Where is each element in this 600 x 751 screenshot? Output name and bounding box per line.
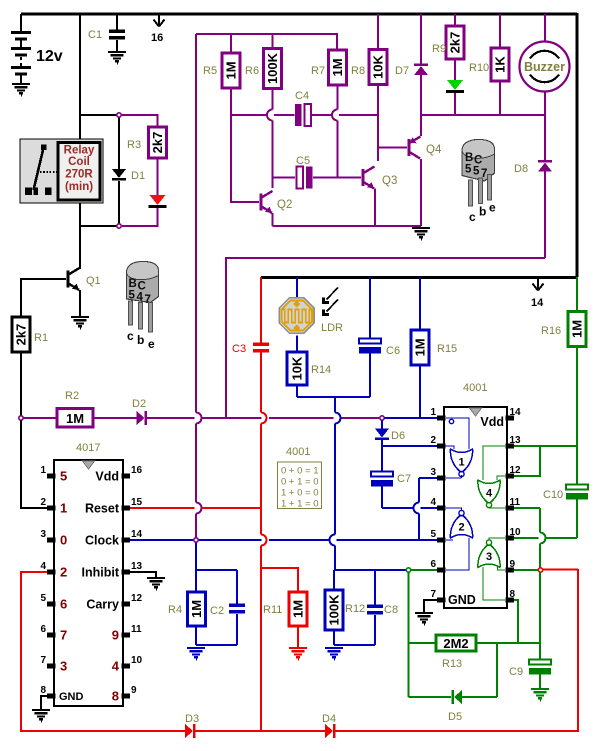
wire D7 to buzzer rail [420, 75, 422, 116]
svg-text:6: 6 [60, 597, 67, 612]
svg-text:Q2: Q2 [277, 199, 292, 211]
node relay-D1 top [117, 113, 121, 117]
wire node to C9 [539, 573, 541, 661]
resistor R9 2k7 [446, 26, 464, 59]
wire C9 to ground [539, 673, 541, 689]
svg-text:R16: R16 [541, 325, 561, 337]
wire alarm drop [225, 257, 227, 418]
wire R1 to node [20, 352, 22, 416]
svg-text:C1: C1 [88, 29, 102, 41]
svg-text:14: 14 [131, 529, 143, 540]
svg-text:4: 4 [430, 497, 436, 508]
svg-text:b: b [479, 205, 486, 219]
wire LDR top [296, 277, 298, 297]
4017 pin 2 stub [47, 505, 56, 510]
4001 pin 10 stub [506, 535, 515, 540]
wire node pin6 to 4001 pin6 [411, 569, 437, 571]
wire R12 bottom [333, 630, 335, 645]
svg-text:R14: R14 [311, 364, 331, 376]
transistor Q3 [363, 167, 375, 189]
svg-text:3: 3 [486, 551, 492, 563]
wire relay junction row [80, 225, 117, 227]
svg-text:R3: R3 [127, 139, 141, 151]
4001 pin 8 stub [506, 597, 515, 602]
wire Q2 collector diag joint [271, 188, 273, 191]
resistor R14 10k [287, 352, 307, 385]
4001 pin 7 stub [437, 597, 446, 602]
wire C10 bottom [576, 498, 578, 538]
wire clock node to RC [195, 543, 197, 571]
svg-text:C5: C5 [296, 155, 310, 167]
4017 pin 3 stub [47, 537, 56, 542]
svg-text:1M: 1M [189, 600, 204, 618]
ground for 4001 pin7 [415, 613, 433, 625]
4001 pin 12 stub [506, 473, 515, 478]
wire Q1 base to R1 [21, 279, 66, 318]
wire C4 row right [311, 114, 331, 116]
svg-text:10K: 10K [290, 356, 305, 380]
transistor Q4 PNP [409, 137, 421, 159]
svg-text:16: 16 [151, 32, 163, 44]
ground for 4017 pin13 [147, 578, 165, 590]
svg-text:Q3: Q3 [382, 175, 397, 187]
diode D7 [414, 64, 428, 76]
ground for oscillator [412, 228, 430, 240]
diode D5 [451, 690, 462, 704]
wire LED1 to junction [122, 208, 158, 226]
4017 pin 14 stub [122, 537, 131, 542]
svg-text:1: 1 [458, 457, 464, 469]
svg-text:0 + 0 = 1: 0 + 0 = 1 [281, 466, 319, 477]
svg-text:4: 4 [137, 292, 144, 304]
4017 pin 7 stub [47, 663, 56, 668]
wire C2 drop [236, 570, 238, 604]
gate 4 NOR [478, 446, 505, 508]
wire Q4 collector down [420, 159, 422, 226]
svg-text:Vdd: Vdd [480, 415, 504, 429]
4001 pin 5 stub [437, 537, 446, 542]
svg-text:R2: R2 [65, 390, 79, 402]
svg-text:5: 5 [40, 593, 46, 604]
wire 2M2 row left [409, 642, 437, 644]
IC U2 4001 [430, 407, 521, 608]
4001 pin 2 stub [437, 443, 446, 448]
svg-text:2: 2 [40, 497, 46, 508]
4017 pin 5 stub [47, 601, 56, 606]
wire buzzer bottom [544, 92, 546, 117]
wire right-side +12V rail [576, 13, 579, 277]
svg-text:2k7: 2k7 [448, 32, 463, 54]
svg-text:Q1: Q1 [86, 275, 101, 287]
svg-text:Reset: Reset [85, 502, 120, 516]
pin16 power arrow [154, 14, 165, 27]
svg-text:11: 11 [510, 497, 521, 508]
diode D1 [112, 169, 126, 181]
relay RLA1 box [20, 139, 103, 203]
wire Q4 emitter to D7 [420, 115, 422, 136]
ground for Q1 [71, 317, 89, 329]
resistor R6 100k [264, 49, 282, 89]
wire D1 to junction [118, 181, 120, 224]
wire LED2 to rail [454, 93, 456, 115]
svg-text:R11: R11 [263, 604, 282, 616]
wire C2 bottom [236, 614, 238, 645]
diode D4 [325, 724, 336, 738]
svg-text:1M: 1M [570, 320, 585, 338]
wire R10 top [499, 14, 501, 49]
wire R8 top [377, 14, 379, 50]
wire R10 to rail [499, 81, 501, 115]
battery B1 12v [11, 14, 31, 84]
wire C4 row left [231, 114, 266, 116]
svg-text:100K: 100K [327, 594, 342, 626]
capacitor C10 [566, 485, 588, 500]
diode D2 [137, 411, 148, 425]
capacitor C4 [295, 104, 311, 126]
svg-text:D4: D4 [322, 713, 336, 725]
svg-text:c: c [469, 210, 476, 224]
wire D8 to alarm rail [544, 172, 546, 259]
gate 2 NOR [446, 508, 473, 570]
svg-text:e: e [489, 201, 496, 215]
wire Q3 emitter down [374, 189, 376, 228]
wire Q2 collector to C5 [273, 177, 296, 179]
svg-text:4001: 4001 [286, 446, 310, 458]
4017 pin 1 stub [47, 473, 56, 478]
gate 1 NOR [445, 418, 473, 478]
svg-text:1 + 1 = 0: 1 + 1 = 0 [281, 499, 319, 510]
4017 pin 12 stub [122, 601, 131, 606]
svg-text:4001: 4001 [463, 382, 487, 394]
svg-text:5: 5 [129, 290, 136, 302]
node alarm junction [538, 568, 542, 572]
wire R5 to Q2 base [231, 88, 259, 202]
light arrows [322, 288, 338, 316]
svg-text:GND: GND [448, 593, 476, 607]
wire D5 row left [409, 696, 452, 698]
svg-text:Q4: Q4 [426, 144, 442, 156]
svg-text:R10: R10 [469, 62, 489, 74]
BC547 package graphic [127, 262, 159, 352]
svg-text:C10: C10 [543, 489, 563, 501]
ground for R4-C2 [187, 648, 205, 660]
LED2 green [446, 80, 464, 93]
svg-text:D1: D1 [131, 170, 145, 182]
resistor R16 1M [568, 312, 586, 347]
svg-text:Carry: Carry [86, 598, 119, 612]
svg-text:D8: D8 [514, 163, 528, 175]
wire R16 to pin13 row [576, 347, 578, 448]
svg-text:2k7: 2k7 [150, 132, 165, 154]
diode D6 [375, 429, 389, 441]
svg-text:4017: 4017 [76, 442, 100, 454]
wire R12-C8 bottom rail [334, 644, 375, 646]
wire R3 to LED1 [157, 158, 159, 196]
wire pin11 to node vertical [539, 508, 541, 533]
svg-text:R1: R1 [34, 332, 48, 344]
wire buzzer rail [421, 114, 545, 116]
wire oscillator top rail [196, 33, 337, 35]
wire node to 4001 pin1 [385, 417, 438, 419]
wire 4017 pin4 row [21, 571, 47, 573]
node pin1 junction [380, 416, 384, 420]
4017 pin 15 stub [122, 505, 131, 510]
wire pin3 row [419, 477, 437, 479]
svg-text:2k7: 2k7 [14, 324, 29, 346]
resistor R5 1M [222, 53, 240, 88]
svg-text:10K: 10K [371, 54, 386, 78]
svg-text:5: 5 [430, 529, 436, 540]
node relay-D1 bottom [117, 224, 121, 228]
svg-text:R13: R13 [442, 658, 462, 670]
IC U1 4017 [40, 460, 142, 706]
capacitor C6 [359, 339, 381, 354]
resistor R7 1M [329, 50, 347, 85]
wire pin8 drop [510, 600, 518, 643]
wire R11 to ground [297, 626, 299, 649]
wire reset row [130, 507, 195, 509]
svg-text:9: 9 [112, 628, 119, 643]
ground for 4017 pin8 [32, 710, 50, 722]
4017 pin 13 stub [122, 569, 131, 574]
4017 pin 8 stub [47, 693, 56, 698]
svg-text:13: 13 [131, 561, 143, 572]
svg-text:9: 9 [131, 685, 137, 696]
pin14 power arrow [533, 278, 544, 291]
svg-text:4: 4 [486, 488, 493, 500]
svg-text:Relay: Relay [64, 145, 95, 157]
node pin6 junction [406, 568, 410, 572]
svg-text:C3: C3 [232, 343, 246, 355]
svg-text:R9: R9 [432, 43, 446, 55]
4001 pin 14 stub [506, 415, 515, 420]
svg-text:c: c [127, 329, 134, 343]
wire node to R3 [122, 115, 158, 128]
svg-text:D6: D6 [391, 430, 405, 442]
wire Q4 base row [378, 147, 407, 149]
svg-text:LDR: LDR [321, 322, 343, 334]
svg-text:6: 6 [430, 559, 436, 570]
svg-text:GND: GND [59, 691, 84, 703]
svg-text:5: 5 [473, 166, 480, 178]
svg-text:12: 12 [131, 593, 143, 604]
ground for C1 [108, 52, 126, 64]
wire D6 to pin2 row [381, 440, 383, 446]
wire C6 bottom [369, 352, 371, 397]
wire pin10 row [510, 537, 539, 539]
wire pin9 row [510, 569, 538, 571]
wire C7 to pin4 row [381, 485, 383, 508]
wire pin4 row [382, 507, 413, 509]
svg-text:1: 1 [60, 501, 67, 516]
wire R9 top [454, 14, 456, 27]
svg-text:Coil: Coil [68, 156, 90, 168]
capacitor C5 [297, 167, 313, 189]
svg-text:Vdd: Vdd [95, 470, 119, 484]
wire feedback drop [408, 573, 410, 698]
wire R2 to D2 [93, 417, 137, 419]
wire osc rail to R6 [272, 34, 274, 49]
wire R16 top [576, 277, 578, 312]
4017 pin 16 stub [122, 473, 131, 478]
resistor R1 2k7 [12, 317, 30, 352]
LDR photocell [279, 298, 314, 333]
wire red to node [543, 569, 578, 571]
svg-text:10: 10 [131, 655, 143, 666]
wire 4017 pin13 to ground [130, 572, 156, 579]
wire C6 top [369, 277, 371, 339]
wire node to D6 [381, 421, 383, 430]
wire Q1 emitter to ground [79, 290, 81, 317]
wire D7 top [420, 14, 422, 64]
svg-text:D5: D5 [448, 711, 462, 723]
wire alarm rail [226, 257, 545, 259]
wire C5 to Q3 base [313, 177, 361, 179]
4017 pin 10 stub [122, 663, 131, 668]
wire C3 red rail down [260, 353, 262, 413]
svg-text:Buzzer: Buzzer [524, 60, 565, 74]
4001 pin 3 stub [437, 475, 446, 480]
svg-text:1K: 1K [493, 56, 508, 73]
svg-text:270R: 270R [65, 169, 93, 181]
4001 pin1 marker dot [449, 419, 453, 423]
svg-text:1M: 1M [330, 58, 345, 76]
svg-text:D7: D7 [395, 65, 409, 77]
svg-text:C4: C4 [295, 90, 309, 102]
4001 truth table [278, 462, 322, 510]
svg-text:7: 7 [40, 655, 46, 666]
wire D1 branch [118, 117, 120, 170]
wire relay top tap [80, 114, 117, 116]
wire R6 to Q2 collector [272, 89, 274, 110]
4017 pin 4 stub [47, 569, 56, 574]
svg-text:C9: C9 [509, 666, 523, 678]
svg-text:D3: D3 [185, 713, 199, 725]
svg-text:R12: R12 [345, 603, 365, 615]
svg-text:5: 5 [60, 469, 67, 484]
BC557 package graphic [462, 140, 496, 225]
wire buzzer top [544, 14, 546, 42]
svg-text:7: 7 [60, 628, 67, 643]
resistor R2 1M [57, 409, 93, 428]
svg-text:11: 11 [131, 624, 142, 635]
svg-text:D2: D2 [132, 398, 146, 410]
4017 pin 11 stub [122, 632, 131, 637]
wire osc rail to R5 [230, 34, 232, 54]
svg-text:1: 1 [430, 407, 436, 418]
svg-text:3: 3 [40, 529, 46, 540]
svg-text:14: 14 [531, 297, 544, 309]
capacitor C3 [253, 343, 269, 353]
wire bottom red rail right [336, 730, 580, 732]
svg-text:1M: 1M [291, 600, 306, 618]
wire clock feed vertical [195, 34, 197, 413]
resistor R4 1M [188, 592, 206, 626]
wire pin13-pin12 link [510, 446, 540, 476]
svg-text:5: 5 [465, 164, 472, 176]
wire R7 to Q3 base row [337, 85, 339, 110]
svg-text:2: 2 [60, 565, 67, 580]
svg-text:12: 12 [510, 465, 522, 476]
wire sensor junction row [297, 396, 370, 398]
svg-text:8: 8 [112, 689, 119, 704]
svg-text:3: 3 [60, 659, 67, 674]
LED1 red [149, 195, 167, 208]
ground for C9 [531, 689, 549, 701]
wire node to R2 [24, 417, 58, 419]
svg-text:Clock: Clock [85, 534, 119, 548]
wire D5 branch vertical [496, 643, 498, 697]
wire R4 bottom [195, 626, 197, 645]
svg-text:6: 6 [40, 624, 46, 635]
wire pin6 row [334, 569, 406, 571]
wire R8 to Q3 collector [377, 85, 379, 162]
svg-text:100K: 100K [265, 52, 280, 84]
IC 4001 body [444, 407, 507, 608]
capacitor C2 [229, 604, 245, 614]
4001 pin 9 stub [506, 567, 515, 572]
wire right red riser [577, 569, 579, 731]
svg-text:C7: C7 [397, 473, 411, 485]
wire D6-C7 vertical [381, 446, 383, 472]
svg-text:R5: R5 [203, 65, 217, 77]
wire LDR to R14 [296, 336, 298, 354]
svg-text:(min): (min) [65, 181, 93, 193]
svg-text:R6: R6 [245, 65, 259, 77]
wire R4-C2 top rail [196, 569, 237, 571]
wire R15 bottom [419, 365, 421, 418]
wire node to 4017 pin2 [21, 421, 47, 509]
wire +12V middle rail [261, 276, 578, 279]
node clock junction [194, 538, 198, 542]
wire C1 branch [116, 14, 118, 30]
wire buzzer rail to D8 [544, 115, 546, 161]
wire emitter ground rail [273, 225, 422, 227]
wire pin11 row [510, 507, 540, 509]
svg-text:8: 8 [510, 589, 516, 600]
wire relay to Q1 collector [79, 203, 81, 269]
svg-text:R8: R8 [351, 65, 365, 77]
svg-text:1M: 1M [224, 61, 239, 79]
node R1-R2 [19, 416, 23, 420]
transistor Q2 [261, 191, 273, 213]
svg-text:C8: C8 [384, 604, 398, 616]
svg-text:B: B [129, 278, 137, 290]
wire 2M2 row right [476, 642, 540, 644]
wire C3 top [260, 277, 262, 343]
wire osc rail to R7 [336, 33, 338, 51]
wire bottom red rail mid [196, 730, 326, 732]
svg-text:1 + 0 = 0: 1 + 0 = 0 [281, 488, 319, 499]
wire clock row pin14 to pin5 [130, 539, 262, 541]
wire +12V top rail [21, 13, 577, 16]
svg-text:B: B [465, 152, 473, 164]
wire R14 bottom [296, 385, 298, 397]
wire R12 top [333, 570, 335, 591]
wire left red drop [20, 571, 22, 731]
wire C8 bottom [374, 615, 376, 645]
svg-text:4: 4 [40, 561, 46, 572]
wire 4017 pin8 to ground [41, 696, 47, 711]
wire R9 to LED2 [454, 59, 456, 81]
4017 pin 9 stub [122, 693, 131, 698]
svg-text:R4: R4 [168, 604, 182, 616]
gate 3 NOR [478, 538, 505, 600]
wire D5 row right [462, 696, 497, 698]
svg-text:b: b [137, 333, 144, 347]
svg-text:R15: R15 [437, 343, 457, 355]
wire R11 branch [261, 568, 298, 593]
